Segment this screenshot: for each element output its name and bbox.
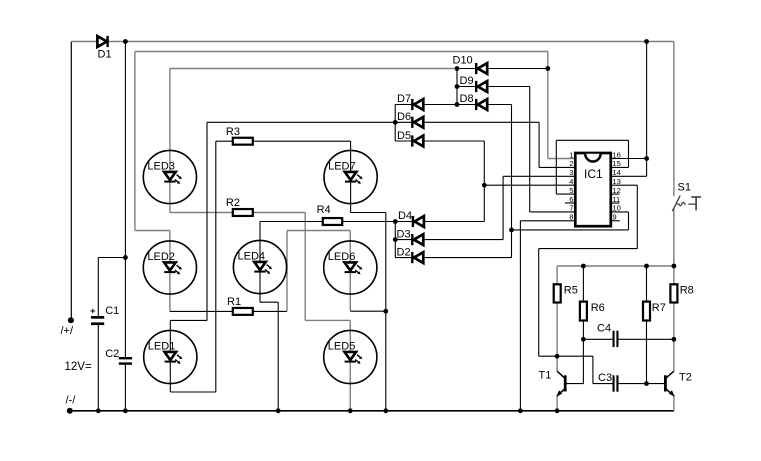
- svg-text:LED2: LED2: [147, 251, 175, 263]
- junction (511.5,229.9): [509, 228, 514, 233]
- wire C4 left lead: [583, 338, 613, 340]
- junction (646.5,383.6): [644, 381, 649, 386]
- junction (457.0,104.5): [455, 102, 460, 107]
- wire LED3 cathode to R2: [170, 212, 233, 214]
- svg-text:D3: D3: [397, 229, 411, 241]
- wire R5 top lead: [556, 266, 558, 284]
- capacitor C3: [613, 375, 619, 391]
- diode D4: [413, 216, 424, 227]
- svg-text:D7: D7: [397, 93, 411, 105]
- wire IC1 pin 3 lead: [503, 175, 575, 177]
- wire D8-D9-D10 cathode link: [456, 69, 458, 105]
- junction (646.5,266.0): [644, 264, 649, 269]
- wire D5/D4 anodes to pin4: [483, 141, 485, 222]
- terminal /-/: [67, 408, 73, 414]
- junction (125.4,41.5): [123, 39, 128, 44]
- wire D6 row to LED1 anode net: [207, 121, 395, 123]
- wire R8 bottom to T2 collector: [673, 303, 675, 372]
- junction (583.4,266.0): [581, 264, 586, 269]
- wire IC1 pin 9 stub: [611, 220, 620, 222]
- LED7: [324, 150, 377, 203]
- wire D5 row: [395, 140, 484, 142]
- junction (395.3,221.5): [393, 219, 398, 224]
- wire IC1 pin 1 lead: [548, 158, 576, 160]
- svg-text:LED6: LED6: [328, 251, 356, 263]
- wire C1 top lead: [97, 258, 99, 317]
- resistor R7: [643, 302, 650, 321]
- wire LED1 anode vertical: [206, 122, 208, 320]
- wire R1 to LED6 vertical: [286, 231, 288, 312]
- junction (385.8,410.8): [383, 408, 388, 413]
- wire R2 right: [253, 212, 305, 214]
- wire IC1 pin 16 lead: [611, 158, 647, 160]
- svg-text:S1: S1: [678, 182, 691, 194]
- wire IC1 pin 14 lead: [611, 175, 647, 177]
- junction (673.9,339.3): [672, 337, 677, 342]
- junction (520.4,410.8): [518, 408, 523, 413]
- wire pin13 vertical: [636, 185, 638, 248]
- wire C1 tap horizontal: [98, 257, 125, 259]
- wire through LED4: [259, 222, 261, 303]
- wire LED4 cathode jog: [260, 301, 278, 303]
- svg-text:3: 3: [569, 168, 573, 177]
- wire R7 top lead: [646, 266, 648, 302]
- svg-text:R6: R6: [591, 302, 605, 314]
- wire through LED2: [169, 231, 171, 312]
- LED1: [144, 330, 197, 383]
- wire T1 base lead: [567, 383, 584, 385]
- wire IC1 pin 7 lead: [530, 211, 576, 213]
- svg-text:C2: C2: [105, 348, 119, 360]
- wire pin5 vertical: [555, 140, 557, 194]
- svg-text:10: 10: [612, 204, 620, 213]
- wire D3 row: [395, 239, 503, 241]
- wire pin1 net vertical left: [134, 52, 136, 231]
- diode D5: [412, 135, 423, 146]
- junction (547.8,68.5): [545, 66, 550, 71]
- svg-text:/-/: /-/: [66, 394, 77, 406]
- svg-text:D6: D6: [397, 111, 411, 123]
- wire R7 bottom to T2 base: [646, 321, 648, 384]
- svg-text:D9: D9: [460, 75, 474, 87]
- svg-text:R4: R4: [317, 204, 331, 216]
- wire C1 bottom lead to ground: [97, 325, 99, 411]
- wire C2 to ground rail: [124, 365, 126, 411]
- wire R2 to LED5 vertical: [304, 213, 306, 321]
- resistor R4: [323, 218, 342, 225]
- IC U1 (IC1) body: [575, 153, 611, 226]
- wire D2 row: [395, 257, 511, 259]
- wire LED1 cathode to R3: [215, 141, 217, 392]
- svg-text:16: 16: [612, 150, 620, 159]
- junction (125.4,410.8): [123, 408, 128, 413]
- resistor R5: [554, 284, 561, 302]
- diode D9: [476, 81, 487, 92]
- LED3: [143, 150, 196, 203]
- svg-text:LED1: LED1: [148, 340, 176, 352]
- svg-text:1: 1: [569, 150, 573, 159]
- svg-text:9: 9: [612, 213, 616, 222]
- diode D3: [412, 234, 423, 245]
- LED5: [324, 330, 377, 383]
- junction (583.4,339.3): [581, 337, 586, 342]
- wire IC1 pin 13 lead: [611, 184, 638, 186]
- wire IC1 pin 15 lead: [611, 166, 629, 168]
- wire R6 top lead: [582, 266, 584, 302]
- wire LED1 cathode horizontal: [170, 391, 216, 393]
- wire top +12V rail: [71, 41, 674, 43]
- capacitor C4: [613, 331, 619, 347]
- wire R3 left lead: [216, 140, 233, 142]
- svg-text:7: 7: [569, 204, 573, 213]
- junction (457.0,86.5): [455, 84, 460, 89]
- svg-text:C3: C3: [598, 372, 612, 384]
- wire IC1 pin 2 lead: [539, 166, 575, 168]
- wire D5-D6-D7 cathode link: [394, 105, 396, 142]
- svg-text:R7: R7: [652, 302, 666, 314]
- capacitor C2: [119, 357, 132, 365]
- svg-text:IC1: IC1: [584, 167, 603, 181]
- wire R3 right to LED7: [253, 140, 351, 142]
- wire R4 right / D4 row: [342, 221, 484, 223]
- wire D7-D8 row: [395, 104, 511, 106]
- wire LED7 cathode jog: [351, 212, 386, 214]
- svg-text:8: 8: [569, 213, 573, 222]
- svg-text:D4: D4: [398, 210, 412, 222]
- wire D9 row: [457, 86, 530, 88]
- wire pin1 net top horizontal: [135, 51, 548, 53]
- wire D3 anode to pin3: [502, 176, 504, 239]
- junction (395.3,239.6): [393, 237, 398, 242]
- wire through LED6: [349, 231, 351, 312]
- svg-text:D1: D1: [98, 49, 112, 61]
- wire to T1 collector node: [539, 355, 593, 357]
- svg-text:2: 2: [569, 159, 573, 168]
- junction (457.0,68.5): [455, 66, 460, 71]
- svg-text:T2: T2: [679, 371, 692, 383]
- LED2: [143, 241, 196, 294]
- wire through LED1: [169, 320, 171, 392]
- wire pin1 net vertical right: [547, 52, 549, 159]
- wire LED2 cathode to R1: [170, 310, 233, 312]
- svg-text:12V=: 12V=: [65, 361, 92, 373]
- svg-text:R2: R2: [226, 197, 240, 209]
- wire D6 anode vertical to pin2: [538, 122, 540, 167]
- wire right rail below S1: [673, 209, 675, 266]
- wire T1 emitter to ground: [556, 396, 558, 411]
- wire over IC1 top: [556, 139, 628, 141]
- wire LED7/LED6 cathodes to ground: [385, 213, 387, 411]
- resistor R2: [233, 209, 253, 216]
- wire D10 row: [457, 68, 548, 70]
- svg-text:13: 13: [612, 177, 620, 186]
- terminal /+/: [68, 317, 74, 323]
- svg-text:D5: D5: [397, 130, 411, 142]
- wire down to pin15: [628, 140, 630, 167]
- resistor R1: [233, 308, 253, 315]
- diode D6: [412, 117, 423, 128]
- wire LED6 cathode to ground column: [350, 310, 386, 312]
- resistor R8: [670, 284, 677, 302]
- wire LED3 anode net horizontal: [170, 68, 457, 70]
- resistor R6: [580, 302, 587, 321]
- diode D8: [476, 99, 487, 110]
- wire pin10 vertical: [628, 212, 630, 230]
- svg-text:T1: T1: [539, 369, 552, 381]
- wire IC1 pin 8 lead: [520, 220, 575, 222]
- wire D8/D2 anodes vertical to pin10 net: [511, 105, 513, 258]
- wire left supply rail: [70, 42, 72, 321]
- svg-text:LED3: LED3: [147, 160, 175, 172]
- svg-text:14: 14: [612, 168, 620, 177]
- svg-text:R8: R8: [680, 284, 694, 296]
- wire pin16 to top rail: [646, 42, 648, 177]
- svg-text:R3: R3: [226, 126, 240, 138]
- svg-text:C1: C1: [105, 305, 119, 317]
- junction (395.2,122.3): [393, 120, 398, 125]
- wire LED4 cathode to ground: [277, 302, 279, 411]
- svg-text:LED5: LED5: [328, 340, 356, 352]
- wire C4 right lead: [617, 338, 674, 340]
- svg-text:12: 12: [612, 186, 620, 195]
- svg-text:D2: D2: [397, 247, 411, 259]
- wire IC1 pin 6 stub: [565, 202, 575, 204]
- transistor T2 (faces right): [665, 371, 674, 396]
- wire through LED5 to ground: [349, 320, 351, 410]
- wire IC1 pin 10 lead: [611, 211, 629, 213]
- wire IC1 pin 12 stub: [611, 193, 620, 195]
- junction (385.8,311.2): [383, 309, 388, 314]
- svg-text:D8: D8: [460, 93, 474, 105]
- wire right rail above S1: [673, 42, 675, 197]
- diode D1: [97, 36, 107, 47]
- svg-text:4: 4: [569, 177, 573, 186]
- svg-text:R1: R1: [227, 296, 241, 308]
- wire pin10 under IC: [512, 229, 629, 231]
- svg-text:C4: C4: [597, 322, 611, 334]
- wire R5 bottom to T1 collector: [556, 303, 558, 372]
- junction (557.1,356.2): [555, 354, 560, 359]
- transistor T1 (faces left): [556, 371, 565, 396]
- diode D7: [412, 99, 423, 110]
- svg-text:6: 6: [569, 195, 573, 204]
- wire IC1 pin 5 lead: [556, 193, 575, 195]
- resistor R3: [233, 138, 253, 145]
- junction (350.3,410.8): [348, 408, 353, 413]
- junction (673.9,266.0): [672, 264, 677, 269]
- junction (646.6,41.5): [644, 39, 649, 44]
- svg-text:R5: R5: [564, 284, 578, 296]
- wire R6 bottom to T1 base: [582, 321, 584, 384]
- svg-text:11: 11: [612, 195, 620, 204]
- wire pin13 horizontal: [539, 248, 638, 250]
- wire through LED7: [350, 141, 352, 212]
- junction (646.6,158.5): [644, 156, 649, 161]
- svg-text:LED4: LED4: [238, 250, 266, 262]
- svg-text:15: 15: [612, 159, 620, 168]
- diode D2: [412, 252, 423, 263]
- wire R1 right: [253, 310, 287, 312]
- wire R8 top lead: [673, 266, 675, 284]
- wire bottom ground rail: [70, 410, 674, 412]
- wire R4 left to LED4 anode: [260, 221, 323, 223]
- LED4: [233, 240, 286, 293]
- capacitor C1 (electrolytic): [91, 309, 105, 325]
- svg-text:D10: D10: [453, 55, 473, 67]
- wire LED1 anode jog: [170, 319, 207, 321]
- wire multivibrator supply rail: [557, 265, 674, 267]
- junction (98.3,410.8): [96, 408, 101, 413]
- switch S1 (pushbutton): [672, 196, 701, 212]
- wire IC1 pin 11 stub: [611, 202, 620, 204]
- junction (125.4,257.5): [123, 255, 128, 260]
- wire to LED6 anode: [287, 230, 350, 232]
- LED6: [324, 241, 377, 294]
- wire T2 emitter to ground: [673, 396, 675, 411]
- junction (557.1,410.8): [555, 408, 560, 413]
- wire C3 right to T2 base: [617, 383, 665, 385]
- svg-text:/+/: /+/: [61, 325, 74, 337]
- wire D9 anode vertical to pin7: [529, 87, 531, 212]
- svg-text:5: 5: [569, 186, 573, 195]
- wire through LED3: [169, 69, 171, 213]
- wire D4-D3-D2 cathode link: [394, 222, 396, 258]
- svg-text:LED7: LED7: [328, 160, 356, 172]
- wire to LED2 anode: [135, 230, 170, 232]
- wire to LED5 anode: [305, 319, 350, 321]
- junction (484.3,185.2): [482, 183, 487, 188]
- diode D10: [476, 63, 487, 74]
- wire D6 row right: [395, 121, 539, 123]
- junction (278.2,410.8): [276, 408, 281, 413]
- wire pin13 down to T1: [538, 249, 540, 357]
- wire IC1 pin 4 lead: [484, 184, 575, 186]
- wire +12V vertical from D1 to C2: [124, 42, 126, 358]
- wire pin8 to ground rail: [519, 221, 521, 411]
- wire down to C3: [592, 356, 594, 383]
- wire C3 left lead: [593, 383, 614, 385]
